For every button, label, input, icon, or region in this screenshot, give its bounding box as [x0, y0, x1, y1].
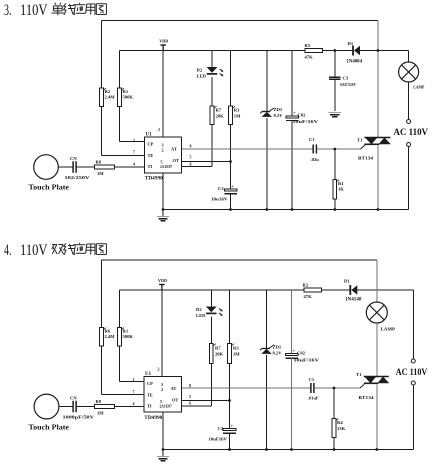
svg-text:1M: 1M: [97, 171, 104, 176]
wire IC pin5 to R3 column circuit2: [181, 400, 229, 402]
wire VDD rail circuit2: [120, 289, 414, 291]
wire C2 bottom to rail circuit2: [228, 433, 231, 451]
lamp LAMP circuit2: [366, 302, 395, 332]
wire AC terminal to bottom rail: [378, 147, 409, 210]
svg-text:6: 6: [189, 401, 191, 406]
capacitor CN 102/50V: [65, 156, 91, 180]
svg-text:TI: TI: [147, 404, 152, 409]
svg-text:C3: C3: [343, 76, 349, 81]
wire C02 bottom to rail circuit2: [290, 358, 293, 451]
svg-text:C1: C1: [309, 137, 315, 142]
wire R6 bottom to IC TE pin circuit2: [102, 346, 145, 395]
IC U1 pin labels right: [171, 147, 179, 164]
svg-text:10uF/16V: 10uF/16V: [294, 358, 320, 363]
IC U1 part number circuit2: [144, 416, 163, 421]
svg-text:R5: R5: [305, 43, 311, 48]
svg-text:C02: C02: [297, 351, 306, 356]
wire bottom rail circuit2: [163, 449, 377, 451]
power VDD symbol circuit2: [158, 278, 167, 290]
svg-text:TD4990: TD4990: [145, 176, 164, 181]
wire triac gate lead diagonal: [361, 145, 366, 149]
svg-text:ZD1: ZD1: [274, 107, 283, 112]
svg-text:TD4990: TD4990: [144, 416, 163, 421]
svg-text:.01uF: .01uF: [308, 396, 319, 401]
wire left column upper (R2 top lead): [101, 21, 103, 89]
node diode rail junction: [377, 49, 380, 52]
wire R3 top lead circuit2: [229, 290, 231, 344]
capacitor C02 10uF/16V electrolytic: [286, 112, 319, 125]
IC U1 pin labels right circuit2: [171, 386, 179, 403]
node C3 junction on VDD rail: [333, 49, 336, 52]
wire C02 top lead: [291, 51, 293, 117]
capacitor C1 .01uF circuit2: [308, 377, 319, 401]
label AC 110V circuit2: [396, 367, 428, 377]
svg-text:1: 1: [133, 138, 135, 143]
svg-text:20K: 20K: [216, 114, 225, 119]
wire R7 bottom to IC pin 6: [182, 125, 213, 167]
svg-text:0.047/250V: 0.047/250V: [340, 82, 356, 87]
svg-text:5: 5: [189, 394, 191, 399]
svg-text:2A1E07: 2A1E07: [160, 405, 172, 409]
svg-text:R1: R1: [123, 329, 129, 334]
svg-text:AC 110V: AC 110V: [394, 127, 429, 137]
svg-text:CP: CP: [147, 381, 153, 386]
wire IC pin8 AT to gate capacitor: [182, 148, 314, 150]
svg-text:T1: T1: [357, 138, 363, 143]
wire R7 bottom to IC pin6 circuit2: [181, 364, 211, 406]
svg-text:1M: 1M: [233, 352, 240, 357]
svg-text:10u16V: 10u16V: [211, 197, 228, 202]
title: 4. 110V two-wire application diagram: [4, 242, 106, 259]
wire VDD to IC pin 2: [162, 51, 164, 138]
svg-text:2: 2: [158, 127, 160, 132]
wire LED top lead circuit2: [210, 290, 212, 307]
IC U1 inner pin numbers circuit2: [160, 382, 172, 409]
svg-text:5: 5: [161, 160, 163, 165]
wire triac MT1 to bottom rail: [377, 146, 380, 211]
wire touch plate to CN circuit2: [59, 406, 73, 408]
svg-text:+: +: [232, 185, 235, 190]
wire C1 to triac gate: [316, 148, 360, 150]
svg-text:10uF16V: 10uF16V: [209, 437, 228, 442]
node gate-R1 junction: [333, 148, 336, 151]
AC terminal top circuit2: [411, 359, 415, 363]
svg-text:R8: R8: [96, 160, 102, 165]
svg-text:OT: OT: [172, 398, 178, 403]
resistor R8 1M circuit2: [95, 399, 115, 416]
node pin5 junction circuit2: [228, 399, 231, 402]
touch plate circuit2: [29, 394, 70, 431]
wire 500K top lead circuit2: [119, 290, 121, 328]
svg-text:CN: CN: [70, 396, 77, 401]
wire 500K resistor top lead: [119, 51, 121, 89]
svg-text:2A1E07: 2A1E07: [160, 165, 172, 169]
svg-text:4.: 4.: [4, 242, 12, 259]
label AC 110V circuit1: [394, 127, 429, 137]
svg-text:R1: R1: [338, 181, 344, 186]
wire touch plate to CN: [58, 166, 73, 168]
wire zener top lead circuit2: [266, 290, 268, 349]
svg-text:7: 7: [133, 389, 135, 394]
svg-text:8.2V: 8.2V: [274, 113, 284, 118]
IC U1 inner pin numbers: [160, 143, 172, 170]
capacitor C2 10u16V electrolytic: [211, 185, 237, 202]
op IC U1 TD4990 box: [145, 133, 182, 174]
resistor R8 1M: [95, 160, 115, 177]
svg-text:U1: U1: [146, 133, 153, 138]
svg-text:AT: AT: [171, 147, 177, 152]
svg-text:C02: C02: [298, 113, 307, 118]
wire triac gate diagonal circuit2: [360, 384, 364, 388]
wire C1 to gate circuit2: [314, 387, 360, 389]
svg-text:+: +: [293, 112, 296, 117]
svg-text:+: +: [231, 424, 234, 429]
svg-text:R3: R3: [234, 108, 240, 113]
wire CN to R8 circuit2: [76, 406, 94, 408]
wire R8 to IC TI circuit2: [115, 406, 145, 408]
svg-text:10uF/16V: 10uF/16V: [293, 119, 319, 124]
svg-text:2.4M: 2.4M: [105, 334, 116, 339]
resistor R7 20K: [210, 106, 224, 125]
resistor R2 2.4M: [100, 88, 116, 107]
resistor R3 1M: [229, 106, 241, 125]
wire 500K bottom to IC CP circuit2: [120, 346, 145, 382]
wire top rail circuit1: [102, 20, 378, 22]
svg-text:R3: R3: [233, 346, 239, 351]
svg-text:5: 5: [160, 399, 162, 404]
resistor R1 500K circuit2: [118, 328, 134, 347]
svg-text:47K: 47K: [304, 294, 313, 299]
wire 500K bottom lead to IC CP pin: [120, 107, 145, 142]
svg-text:BT134: BT134: [359, 395, 375, 400]
svg-text:2: 2: [161, 387, 163, 392]
wire R8 to IC TI pin: [115, 166, 145, 168]
wire lamp drop from rail: [408, 51, 410, 63]
svg-text:R7: R7: [216, 108, 222, 113]
wire triac column from top rail: [377, 21, 379, 138]
wire lamp to triac circuit2: [376, 323, 378, 376]
wire AC terminal to rail circuit2: [377, 385, 414, 450]
svg-text:1N4148: 1N4148: [345, 298, 362, 303]
ground symbol circuit1: [157, 217, 169, 221]
capacitor C2 10uF16V circuit2: [209, 424, 237, 441]
resistor R6 2.4M: [100, 328, 116, 347]
IC U1 pin labels left circuit2: [147, 381, 153, 409]
svg-text:D2: D2: [196, 307, 202, 312]
wire lamp column circuit2: [376, 260, 378, 302]
ground below C3: [329, 113, 341, 117]
wire IC pin5 to R3 column: [182, 161, 231, 163]
svg-text:+: +: [293, 350, 296, 355]
svg-text:VDD: VDD: [159, 39, 168, 44]
svg-text:110V: 110V: [20, 2, 48, 19]
svg-text:5: 5: [190, 155, 192, 160]
svg-text:R2: R2: [105, 89, 111, 94]
svg-text:4: 4: [133, 401, 135, 406]
wire LED to R7 circuit2: [210, 316, 212, 344]
IC pin numbers outside circuit2: [133, 367, 192, 407]
svg-text:13K: 13K: [337, 426, 346, 431]
wire VDD rail circuit1: [120, 50, 409, 52]
svg-text:LAMP: LAMP: [413, 85, 424, 90]
wire C02 top lead circuit2: [291, 290, 293, 354]
svg-text:LED: LED: [197, 74, 207, 79]
node gate R4 junction circuit2: [333, 387, 336, 390]
wire R3 bottom through pin5 node circuit2: [229, 364, 231, 430]
svg-text:R6: R6: [105, 329, 111, 334]
wire IC pin8 AT gate circuit2: [181, 387, 311, 389]
capacitor C02 10uF/16V circuit2: [285, 350, 320, 363]
svg-text:R2: R2: [303, 283, 309, 288]
svg-text:8: 8: [190, 144, 192, 149]
wire R1 bottom to rail: [333, 199, 336, 211]
diode D1 1N4004: [347, 41, 363, 65]
wire C2 bottom to ground rail: [229, 193, 232, 211]
IC U1 pin labels left: [148, 142, 154, 170]
power VDD symbol circuit1: [159, 39, 168, 51]
svg-text:Touch Plate: Touch Plate: [29, 422, 70, 431]
svg-text:CN: CN: [70, 156, 77, 161]
svg-text:BT134: BT134: [358, 156, 374, 161]
svg-text:AT: AT: [171, 386, 177, 391]
svg-text:20K: 20K: [215, 352, 224, 357]
wire C3 top lead: [334, 51, 336, 77]
svg-text:ZD1: ZD1: [273, 345, 282, 350]
capacitor C3 0.047/250V: [329, 76, 356, 88]
svg-text:1K: 1K: [338, 187, 344, 192]
svg-text:U1: U1: [145, 372, 152, 377]
triac T1 BT134: [357, 138, 391, 161]
lamp LAMP circuit1: [399, 62, 425, 90]
svg-text:1M: 1M: [97, 411, 104, 416]
svg-text:500K: 500K: [123, 95, 134, 100]
IC pin numbers outside: [133, 127, 192, 167]
svg-text:AC 110V: AC 110V: [396, 367, 428, 377]
AC terminal top circuit1: [407, 120, 411, 124]
wire VDD to IC circuit2: [161, 290, 163, 376]
LED D2: [197, 67, 224, 79]
title: 3. 110V single-wire application diagram: [4, 2, 106, 19]
resistor R5 47K: [305, 43, 323, 60]
node pin5-R3 junction: [229, 160, 232, 163]
svg-text:R8: R8: [96, 399, 102, 404]
wire triac to rail circuit2: [375, 385, 378, 451]
resistor R3 1M circuit2: [228, 344, 241, 364]
LED D2 circuit2: [196, 307, 223, 319]
svg-text:1: 1: [133, 377, 135, 382]
svg-text:CP: CP: [148, 142, 154, 147]
triac T1 BT134 circuit2: [356, 372, 389, 400]
wire R1 top lead: [334, 149, 336, 180]
wire lamp to AC terminal: [408, 82, 410, 120]
svg-text:7: 7: [133, 150, 135, 155]
svg-text:.02u: .02u: [311, 157, 320, 162]
wire R4 top lead circuit2: [333, 388, 335, 419]
svg-text:C1: C1: [309, 377, 315, 382]
wire zener to rail circuit2: [265, 355, 268, 451]
svg-text:1000pF/50V: 1000pF/50V: [63, 415, 96, 420]
wire C02 bottom to ground rail: [291, 120, 294, 211]
wire LED top lead: [211, 51, 213, 68]
wire C3 bottom lead: [334, 80, 336, 111]
svg-text:D1: D1: [344, 279, 350, 284]
resistor R7 20K circuit2: [209, 344, 223, 364]
diode D1 1N4148 circuit2: [344, 279, 362, 303]
zener diode ZD1 8.2V circuit2: [260, 345, 282, 356]
AC terminal bottom circuit2: [411, 381, 415, 385]
svg-text:6: 6: [190, 162, 192, 167]
wire left column upper circuit2: [101, 260, 103, 328]
wire top rail circuit2: [102, 259, 377, 261]
wire R4 bottom to rail circuit2: [333, 438, 336, 451]
capacitor CN 1000pF/50V circuit2: [63, 396, 96, 420]
wire bottom rail circuit1: [163, 209, 378, 211]
svg-text:4: 4: [133, 162, 135, 167]
svg-text:LED: LED: [196, 313, 206, 318]
touch plate circuit1: [29, 155, 70, 192]
svg-text:R7: R7: [215, 346, 221, 351]
svg-text:2: 2: [158, 367, 160, 372]
AC terminal bottom circuit1: [407, 143, 411, 147]
svg-text:TE: TE: [148, 153, 154, 158]
svg-text:D1: D1: [348, 41, 354, 46]
svg-text:1N4004: 1N4004: [347, 60, 363, 65]
svg-text:47K: 47K: [305, 55, 314, 60]
wire R2 bottom lead to IC TE pin: [102, 107, 145, 156]
resistor R1 1K: [333, 180, 344, 200]
svg-text:VDD: VDD: [158, 278, 167, 283]
wire AC drop circuit2: [412, 290, 414, 359]
wire IC VSS to ground: [162, 173, 165, 216]
svg-text:Touch Plate: Touch Plate: [29, 183, 70, 192]
wire zener top lead: [266, 51, 268, 112]
svg-text:C2: C2: [218, 426, 224, 431]
resistor R2 47K circuit2: [303, 283, 322, 300]
IC U1 part number TD4990: [145, 176, 164, 181]
wire R3 top lead: [230, 51, 232, 107]
svg-text:D2: D2: [197, 68, 203, 73]
op IC U1 TD4990 box circuit2: [144, 372, 181, 412]
svg-text:3.: 3.: [4, 2, 12, 19]
resistor R1 500K: [118, 88, 134, 107]
svg-text:TE: TE: [147, 393, 153, 398]
svg-text:110V: 110V: [20, 242, 48, 259]
resistor R4 13K circuit2: [332, 419, 345, 438]
svg-text:500K: 500K: [123, 334, 134, 339]
svg-text:2.4M: 2.4M: [105, 95, 116, 100]
svg-text:T1: T1: [356, 372, 362, 377]
zener diode ZD1 8.2V: [260, 107, 283, 118]
svg-text:8: 8: [189, 383, 191, 388]
svg-text:C2: C2: [218, 186, 224, 191]
wire R3 bottom through pin5 node to C2: [230, 125, 232, 190]
capacitor C1 .02uF: [309, 137, 319, 162]
svg-text:LAMP: LAMP: [381, 327, 396, 332]
wire CN to R8: [76, 166, 94, 168]
wire zener bottom to ground rail: [265, 118, 268, 211]
wire LED cathode to R7: [211, 77, 213, 107]
svg-text:R4: R4: [337, 420, 343, 425]
svg-text:OT: OT: [173, 158, 179, 163]
wire IC VSS to ground circuit2: [162, 412, 165, 456]
svg-text:8.2V: 8.2V: [273, 351, 283, 356]
svg-text:102/250V: 102/250V: [65, 175, 91, 180]
svg-text:1M: 1M: [234, 114, 241, 119]
ground symbol circuit2: [157, 457, 169, 461]
svg-text:2: 2: [162, 148, 164, 153]
svg-text:R1: R1: [123, 89, 129, 94]
svg-text:TI: TI: [148, 164, 153, 169]
